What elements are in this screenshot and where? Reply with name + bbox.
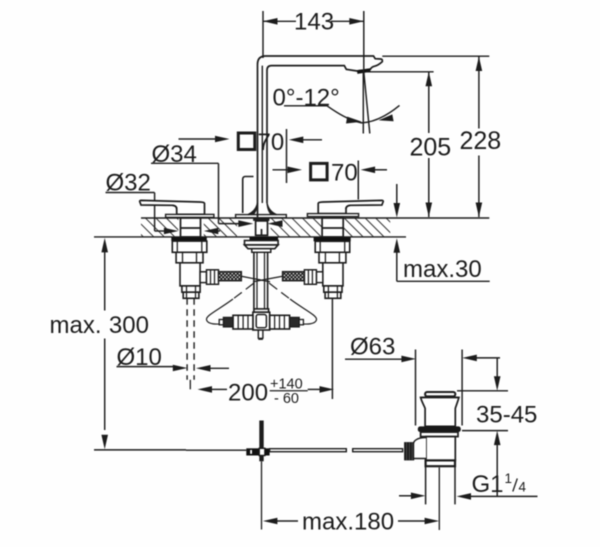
left shank: [181, 218, 344, 237]
right braided hose: [283, 272, 305, 281]
dimension 35-45: [457, 390, 508, 392]
G1 1/4 thread label: [399, 495, 411, 497]
left valve bottom nuts: [182, 286, 200, 292]
dimension 205: [366, 56, 501, 217]
svg-text:143: 143: [294, 8, 334, 35]
right handle lever: [318, 200, 383, 213]
gasket flange dark: [418, 426, 461, 432]
dimension square 70 second: [273, 169, 291, 171]
svg-text:228: 228: [460, 127, 502, 155]
deck bottom line: [94, 236, 406, 238]
tee right port hex: [270, 315, 290, 329]
dimension max30: [394, 184, 490, 283]
collar under body: [426, 460, 455, 466]
tee bottom stub: [257, 330, 259, 339]
right valve below deck: [314, 238, 351, 242]
dimension 228: [382, 55, 489, 57]
svg-text:35-45: 35-45: [476, 402, 537, 429]
center shank: [256, 221, 268, 235]
extension below cross: [261, 461, 263, 529]
svg-text:205: 205: [410, 134, 452, 162]
angle 0-12 indicator: [273, 70, 400, 134]
svg-text:max.: max.: [49, 312, 101, 339]
svg-text:G1: G1: [472, 471, 504, 498]
center shank flange below deck: [219, 237, 303, 339]
left handle lever: [140, 200, 384, 217]
dimension 200 +140 -60: [198, 386, 213, 393]
left handle base plate: [166, 214, 214, 217]
svg-text:max.30: max.30: [403, 256, 482, 283]
lower body: [426, 437, 455, 461]
tailpipe: [425, 466, 427, 504]
phantom hose loop left: [233, 283, 254, 299]
label diameter 10: [117, 344, 335, 407]
svg-text:70: 70: [258, 129, 285, 156]
hook detail left of pipe: [243, 177, 254, 214]
countertop deck hatched: [94, 218, 489, 237]
tee body: [253, 312, 270, 330]
label diameter 63: [345, 334, 538, 531]
center column pipe: [253, 252, 255, 309]
vertical pin: [259, 421, 263, 462]
dimension max180: [263, 509, 439, 536]
left boss and knurled knob: [413, 438, 426, 459]
left popup rod dashed: [186, 298, 188, 380]
deck top surface line: [141, 217, 489, 219]
spout base flare: [248, 202, 258, 215]
right handle base plate: [307, 214, 358, 217]
popup waste drain body: [404, 392, 461, 530]
dimension 143 top: [263, 8, 364, 69]
cross clamp: [246, 448, 259, 455]
center collar: [253, 218, 269, 221]
popup horizontal rod: [186, 421, 403, 530]
right supply line: [331, 298, 333, 399]
svg-text:Ø63: Ø63: [350, 334, 395, 361]
svg-text:200: 200: [228, 380, 268, 407]
right shank: [322, 218, 343, 237]
right valve bottom nuts: [324, 286, 342, 292]
dia63 extension lines: [415, 350, 417, 426]
svg-text:70: 70: [331, 159, 358, 186]
svg-text:4: 4: [519, 480, 527, 495]
right valve side port: [316, 272, 322, 283]
left valve side port: [200, 272, 206, 283]
tee left port hex: [233, 315, 253, 329]
spout outline: [236, 56, 383, 221]
dimension square 70 first: [179, 129, 388, 200]
svg-text:300: 300: [109, 312, 149, 339]
hose thin lines crossing: [241, 276, 270, 282]
svg-text:- 60: - 60: [274, 391, 299, 407]
center base plate: [236, 215, 287, 218]
dimension max300: [49, 238, 186, 450]
tee top flange: [254, 309, 269, 312]
left valve below deck: [171, 238, 350, 400]
svg-text:max.180: max.180: [302, 509, 394, 536]
svg-text:1: 1: [505, 471, 513, 486]
thick rod to drain: [270, 449, 347, 452]
phantom hose loop right: [269, 283, 290, 299]
left braided hose: [219, 272, 242, 281]
label diameter 34: [106, 141, 283, 234]
